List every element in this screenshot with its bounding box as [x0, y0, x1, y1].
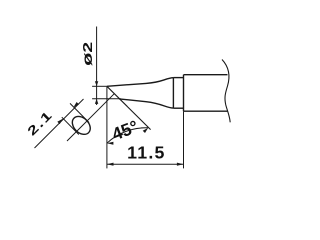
11.5 right arrow [177, 163, 184, 166]
11.5 dimension line [107, 163, 184, 165]
svg-text:2: 2 [81, 42, 95, 53]
dia2 bottom extension line [92, 98, 121, 100]
2.1 arrow at lower crossing [57, 119, 63, 125]
tip body outline top edge [107, 78, 173, 87]
dia2 arrow up at bottom line [95, 99, 98, 104]
sleeve bottom edge [184, 110, 228, 112]
2.1 extension line upper [70, 103, 89, 122]
sleeve top edge [184, 74, 228, 76]
dia2 arrow down at top line [95, 81, 98, 86]
collar front vertical [172, 78, 174, 109]
dia2 dim vertical line [96, 27, 98, 106]
tip body outline bottom edge [119, 99, 173, 108]
11.5 right extension line [183, 111, 185, 168]
11.5 left extension line [106, 87, 108, 169]
bevel face ellipse [69, 113, 94, 138]
svg-text:2.1: 2.1 [25, 108, 56, 139]
dia2 top extension line [92, 85, 107, 87]
svg-text:11.5: 11.5 [127, 143, 165, 163]
collar top edge [173, 77, 183, 79]
45 arc arrow at diagonal [143, 128, 149, 133]
45deg arc [107, 128, 148, 143]
collar bottom edge [173, 107, 183, 109]
svg-text:45°: 45° [109, 116, 141, 144]
sleeve front vertical [183, 75, 185, 112]
2.1 arrow at upper crossing [73, 102, 79, 108]
break line curve [222, 60, 230, 123]
projection axis line [67, 94, 114, 141]
2.1 dimension line [35, 99, 84, 148]
11.5 left arrow [107, 163, 114, 166]
svg-text:ø: ø [80, 53, 95, 66]
45 arc arrow at vertical line [107, 142, 114, 145]
2.1 extension line lower [62, 117, 79, 134]
bevel face 45deg line [107, 86, 151, 129]
